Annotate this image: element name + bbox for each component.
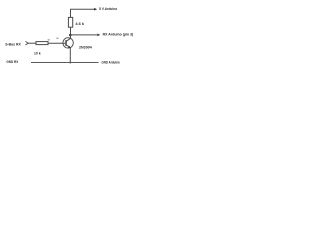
input open arrowhead	[25, 41, 28, 45]
node: collector junction dot	[69, 34, 72, 37]
transistor Q1 circle	[63, 38, 73, 48]
arrowhead RX	[97, 34, 100, 37]
resistor R2 10k base resistor	[36, 42, 48, 45]
svg-text:GND RX: GND RX	[6, 60, 18, 64]
svg-text:S-Bus RX: S-Bus RX	[5, 43, 21, 47]
wire: 5V top rail from resistor top corner to arrow	[71, 9, 95, 17]
svg-text:RX Arduino (pin 3): RX Arduino (pin 3)	[103, 32, 134, 36]
svg-text:10 k: 10 k	[34, 51, 41, 55]
wire: base resistor to transistor base	[48, 42, 65, 44]
stray mark left	[48, 39, 50, 40]
wire: collector node to RX arrow	[71, 34, 98, 36]
svg-text:5 V Arduino: 5 V Arduino	[99, 6, 118, 11]
wire: node down to transistor collector	[70, 35, 72, 39]
wire: emitter down to ground rail	[69, 48, 71, 63]
svg-text:2N3904: 2N3904	[79, 46, 92, 50]
arrowhead 5V	[94, 8, 97, 11]
resistor R1 4.6k pull-up	[68, 17, 72, 27]
svg-text:GND Arduino: GND Arduino	[102, 60, 121, 64]
wire: resistor bottom to collector node	[70, 27, 72, 35]
wire: ground rail	[31, 62, 99, 64]
node: emitter-ground junction dot	[69, 62, 71, 64]
svg-text:4.6 k: 4.6 k	[75, 22, 85, 26]
stray mark right	[56, 38, 58, 39]
wire: input arrow to base resistor	[28, 42, 36, 44]
transistor Q1 base bar	[65, 40, 67, 46]
transistor Q1 emitter diagonal with arrow	[66, 45, 70, 48]
transistor Q1 collector diagonal	[66, 38, 70, 41]
